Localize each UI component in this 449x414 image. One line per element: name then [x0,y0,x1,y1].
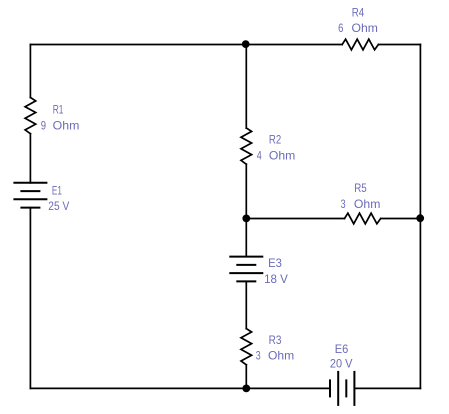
battery E3 plate short bottom [237,280,255,282]
svg-text:Ohm: Ohm [53,119,80,133]
wire left rail top segment [29,45,31,98]
battery E6 plate long [337,372,339,405]
wire middle horizontal right segment [381,218,421,220]
svg-text:4: 4 [257,149,262,163]
svg-text:R3: R3 [269,333,282,347]
battery E6 plate short left [329,380,331,396]
resistor R3 [241,329,252,365]
battery E1 plate short [21,190,39,192]
svg-text:18 V: 18 V [264,272,288,286]
wire middle horizontal left segment [246,218,344,220]
svg-text:E1: E1 [52,184,62,198]
svg-text:R2: R2 [269,133,282,147]
svg-text:R4: R4 [352,5,365,19]
svg-text:3: 3 [256,349,261,363]
wire middle node to E3 [245,219,247,257]
battery E1 plate long top [14,182,46,184]
wire bottom rail left segment [30,387,330,389]
svg-text:Ohm: Ohm [268,349,294,363]
wire middle column top segment [245,45,247,129]
node middle junction [242,215,250,223]
svg-text:E3: E3 [268,256,282,270]
resistor R5 [345,213,381,224]
resistor R1 [25,98,36,134]
svg-text:Ohm: Ohm [354,197,381,211]
wire top rail right segment [378,44,420,46]
battery E6 plate long right [353,372,355,405]
resistor R4 [342,39,378,50]
wire right rail [419,45,421,389]
battery E3 plate short [237,264,255,266]
battery E3 plate long top [230,256,262,258]
svg-text:E6: E6 [335,342,349,356]
battery E1 plate long [14,198,46,200]
svg-text:25 V: 25 V [48,199,69,213]
svg-text:R1: R1 [53,103,64,117]
node top junction [242,40,250,48]
svg-text:R5: R5 [354,181,367,195]
battery E6 plate short [345,380,347,396]
wire E3 to R3 [245,281,247,328]
svg-text:Ohm: Ohm [269,149,295,163]
resistor R2 [241,128,252,164]
node right junction [416,214,424,222]
battery E1 plate short bottom [21,207,39,209]
svg-text:3: 3 [341,197,346,211]
wire R2 to middle node [245,164,247,218]
node bottom junction [242,385,250,393]
wire left rail bottom segment [29,208,31,389]
svg-text:20 V: 20 V [330,357,353,371]
wire top rail left segment [30,44,342,46]
svg-text:6: 6 [338,21,344,35]
wire R3 to bottom node [245,365,247,389]
svg-text:9: 9 [41,119,47,133]
svg-text:Ohm: Ohm [352,21,378,35]
wire bottom rail right segment [354,387,420,389]
wire R1 to E1 [29,134,31,183]
battery E3 plate long [230,272,262,274]
